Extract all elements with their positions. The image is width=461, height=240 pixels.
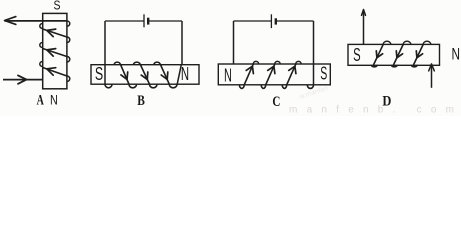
coil B top loop bumps bbox=[114, 62, 120, 65]
wire: upward lead bottom-right of D bbox=[431, 65, 433, 88]
svg-text:C: C bbox=[272, 93, 280, 110]
coil C bottom loop curls bbox=[239, 85, 244, 89]
svg-text:N: N bbox=[50, 92, 58, 107]
svg-text:B: B bbox=[137, 92, 145, 109]
wire: right vertical of B bbox=[181, 21, 183, 65]
coil C top loop curls bbox=[253, 61, 259, 64]
wire: top exit lead of coil A bbox=[5, 20, 67, 22]
wire: right vertical of C (passes through bar) bbox=[313, 21, 315, 85]
battery B: short plate bbox=[147, 18, 149, 25]
coil B strand arrows (current downward) bbox=[121, 72, 128, 80]
svg-text:A: A bbox=[37, 92, 45, 108]
wire: upward lead top-left of D bbox=[363, 11, 365, 45]
coil C entry curl below bar (right side) bbox=[307, 85, 313, 88]
coil B front strands bbox=[120, 64, 129, 84]
coil D strand arrows (current down-left) bbox=[376, 51, 382, 58]
bar magnet D bbox=[348, 44, 440, 65]
wire: left vertical of C bbox=[233, 21, 235, 64]
current arrow in (pointing right) bbox=[18, 75, 27, 83]
bar magnet C bbox=[218, 64, 330, 85]
up arrow head (top-left) bbox=[362, 10, 366, 16]
battery C: short plate bbox=[275, 18, 277, 24]
coil C front strands bbox=[244, 64, 253, 85]
coil B exit riser to right wire bbox=[177, 65, 181, 85]
coil B entry curl below bar bbox=[105, 84, 112, 88]
svg-text:S: S bbox=[353, 45, 361, 65]
svg-text:S: S bbox=[95, 64, 103, 84]
coil D top loop arcs bbox=[383, 41, 391, 44]
bar magnet B bbox=[91, 65, 199, 85]
wire: top rail of circuit B bbox=[105, 20, 144, 22]
up arrow head (bottom-right) bbox=[429, 64, 435, 71]
solenoid core A (vertical bar) bbox=[43, 13, 67, 88]
coil C strand arrows (current upward) bbox=[246, 66, 253, 73]
coil D bottom nubs bbox=[372, 65, 378, 67]
coil A left-edge loop arcs bbox=[40, 24, 43, 29]
coil D front strands bbox=[374, 44, 384, 65]
svg-text:N: N bbox=[451, 45, 460, 64]
svg-text:D: D bbox=[382, 92, 391, 109]
current arrow out (pointing left) bbox=[5, 17, 16, 25]
coil A front strands bbox=[43, 29, 67, 37]
wire: top rail of circuit C bbox=[234, 20, 272, 22]
svg-text:N: N bbox=[224, 66, 232, 86]
coil A right-edge loop arcs bbox=[67, 21, 70, 26]
wire: left vertical of B (passes through bar) bbox=[104, 21, 106, 84]
svg-text:S: S bbox=[54, 0, 61, 13]
battery C: long plate bbox=[270, 14, 272, 28]
wire: bottom entry lead of coil A bbox=[3, 79, 43, 81]
coil A strand arrows (current up-left) bbox=[47, 29, 56, 36]
coil B bottom loop curls bbox=[129, 84, 137, 88]
svg-text:S: S bbox=[320, 64, 327, 84]
battery B: long plate bbox=[143, 14, 145, 27]
svg-text:N: N bbox=[181, 64, 189, 84]
